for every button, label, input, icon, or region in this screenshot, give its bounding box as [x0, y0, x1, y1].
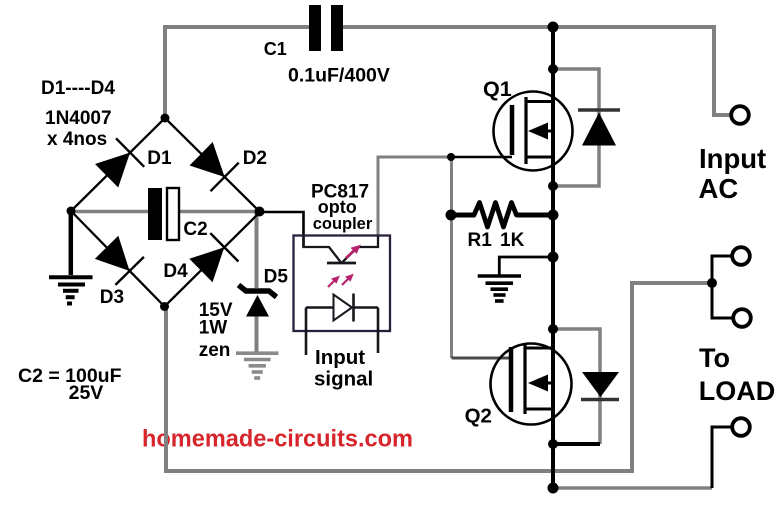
svg-text:D1: D1	[147, 148, 172, 169]
svg-text:AC: AC	[699, 173, 739, 204]
svg-text:D3: D3	[100, 287, 124, 308]
svg-text:D2: D2	[243, 148, 267, 169]
svg-text:LOAD: LOAD	[699, 376, 776, 406]
svg-text:C2: C2	[183, 219, 207, 240]
svg-text:Q2: Q2	[465, 405, 492, 428]
svg-text:Q1: Q1	[483, 77, 512, 101]
svg-text:Input: Input	[315, 346, 365, 369]
svg-text:x 4nos: x 4nos	[47, 129, 107, 150]
svg-text:To: To	[699, 343, 730, 373]
svg-text:Input: Input	[699, 143, 766, 174]
svg-text:1W: 1W	[199, 318, 228, 339]
svg-text:D4: D4	[163, 261, 188, 282]
svg-text:coupler: coupler	[313, 215, 373, 233]
svg-text:1N4007: 1N4007	[45, 108, 112, 129]
svg-text:C1: C1	[264, 39, 287, 59]
svg-text:zen: zen	[199, 340, 231, 361]
svg-text:opto: opto	[318, 197, 357, 217]
svg-text:1K: 1K	[500, 230, 525, 251]
svg-text:homemade-circuits.com: homemade-circuits.com	[142, 426, 413, 453]
svg-text:0.1uF/400V: 0.1uF/400V	[288, 65, 390, 87]
svg-text:signal: signal	[314, 368, 373, 391]
svg-text:R1: R1	[468, 230, 493, 251]
svg-text:25V: 25V	[69, 382, 104, 404]
svg-text:D1----D4: D1----D4	[41, 78, 115, 99]
svg-text:D5: D5	[264, 267, 289, 288]
